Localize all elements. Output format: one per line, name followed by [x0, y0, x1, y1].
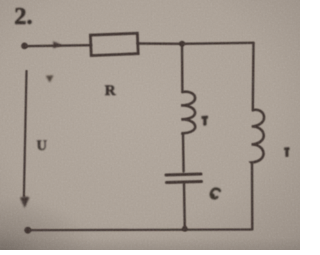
small triangle mark near top of source arrow	[46, 75, 54, 82]
label L (middle inductor, small T-like glyph)	[202, 116, 208, 126]
wire: capacitor C to bottom junction	[183, 184, 186, 229]
current direction arrowhead on top wire	[53, 41, 62, 48]
wire: right branch vertical lower segment	[251, 164, 254, 229]
resistor R body	[90, 33, 138, 55]
bottom-left corner shadow	[0, 195, 90, 250]
node A (top-left terminal dot)	[21, 43, 28, 50]
wire: right branch vertical upper segment	[252, 43, 255, 111]
bottom-left terminal node dot	[24, 227, 31, 234]
wire: node B to top-right corner	[182, 43, 254, 44]
wire: node A to resistor R left terminal	[25, 45, 92, 46]
voltage source arrow U shaft	[24, 71, 27, 196]
bottom edge shading	[0, 238, 300, 250]
inductor L1 (middle branch coil)	[181, 92, 195, 134]
capacitor C top plate	[166, 174, 201, 175]
capacitor C bottom plate	[167, 182, 202, 183]
label C (capacitor)	[211, 189, 220, 199]
wire: node B down to inductor L1	[181, 44, 184, 92]
wire: resistor R right terminal to node B	[138, 42, 183, 45]
bottom junction dot (middle branch)	[182, 226, 188, 232]
label L (right inductor, small T-like glyph)	[284, 147, 289, 156]
wire: inductor L1 to capacitor C	[182, 134, 185, 172]
node B (top junction dot)	[179, 41, 185, 47]
voltage source arrowhead (pointing down)	[20, 196, 30, 208]
wire: bottom horizontal	[28, 228, 252, 231]
inductor L2 (right branch coil)	[251, 110, 264, 164]
